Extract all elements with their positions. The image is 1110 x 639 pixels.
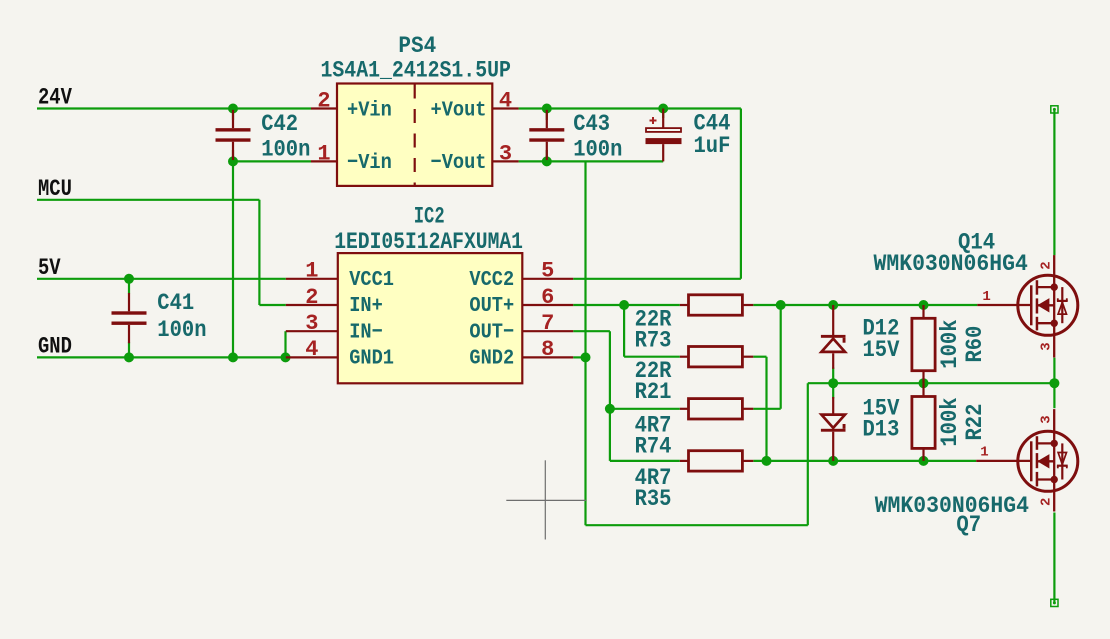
- svg-text:IN−: IN−: [349, 320, 383, 344]
- svg-text:8: 8: [541, 337, 554, 362]
- svg-text:100k: 100k: [937, 397, 963, 446]
- svg-text:1uF: 1uF: [694, 133, 731, 159]
- svg-text:PS4: PS4: [398, 33, 436, 59]
- svg-text:5V: 5V: [38, 255, 61, 281]
- svg-text:GND: GND: [38, 334, 72, 360]
- svg-text:4: 4: [305, 337, 318, 362]
- svg-text:6: 6: [541, 285, 554, 310]
- svg-text:100n: 100n: [157, 317, 206, 343]
- svg-text:2: 2: [305, 285, 318, 310]
- svg-text:Q7: Q7: [956, 512, 981, 538]
- svg-text:2: 2: [1039, 261, 1055, 269]
- svg-text:R22: R22: [962, 404, 988, 441]
- svg-text:100n: 100n: [573, 137, 622, 163]
- svg-text:R60: R60: [962, 326, 988, 363]
- svg-text:MCU: MCU: [38, 176, 72, 202]
- svg-text:IC2: IC2: [414, 203, 445, 229]
- svg-text:1EDI05I12AFXUMA1: 1EDI05I12AFXUMA1: [334, 229, 523, 255]
- svg-text:VCC1: VCC1: [349, 268, 394, 292]
- svg-text:−Vin: −Vin: [347, 151, 392, 175]
- svg-text:VCC2: VCC2: [469, 268, 514, 292]
- svg-text:2: 2: [1039, 498, 1055, 506]
- svg-text:R74: R74: [635, 433, 672, 459]
- svg-text:4: 4: [499, 89, 512, 114]
- svg-text:C41: C41: [157, 290, 194, 316]
- svg-text:2: 2: [317, 89, 330, 114]
- svg-text:100k: 100k: [937, 319, 963, 368]
- svg-text:GND2: GND2: [469, 347, 514, 371]
- svg-text:24V: 24V: [38, 85, 72, 111]
- svg-text:15V: 15V: [863, 337, 900, 363]
- svg-text:GND1: GND1: [349, 347, 394, 371]
- svg-text:1: 1: [982, 289, 990, 305]
- svg-text:C42: C42: [261, 111, 298, 137]
- svg-text:R35: R35: [635, 486, 672, 512]
- svg-text:C43: C43: [573, 111, 610, 137]
- svg-text:3: 3: [305, 311, 318, 336]
- svg-text:OUT−: OUT−: [469, 320, 514, 344]
- svg-text:3: 3: [1039, 342, 1055, 350]
- svg-text:WMK030N06HG4: WMK030N06HG4: [874, 251, 1028, 277]
- svg-text:R73: R73: [635, 327, 672, 353]
- svg-text:D13: D13: [863, 417, 900, 443]
- svg-text:3: 3: [499, 142, 512, 167]
- svg-text:R21: R21: [635, 379, 672, 405]
- svg-text:OUT+: OUT+: [469, 294, 514, 318]
- svg-text:7: 7: [541, 311, 554, 336]
- svg-text:3: 3: [1039, 415, 1055, 423]
- svg-text:5: 5: [541, 259, 554, 284]
- svg-text:IN+: IN+: [349, 294, 383, 318]
- svg-text:1: 1: [305, 259, 318, 284]
- svg-text:−Vout: −Vout: [431, 151, 487, 175]
- svg-text:1S4A1_2412S1.5UP: 1S4A1_2412S1.5UP: [321, 58, 511, 84]
- svg-text:100n: 100n: [261, 137, 310, 163]
- svg-text:+Vin: +Vin: [347, 98, 392, 122]
- svg-text:1: 1: [317, 142, 330, 167]
- svg-text:+Vout: +Vout: [431, 98, 487, 122]
- svg-text:1: 1: [980, 445, 988, 461]
- svg-text:WMK030N06HG4: WMK030N06HG4: [875, 493, 1029, 519]
